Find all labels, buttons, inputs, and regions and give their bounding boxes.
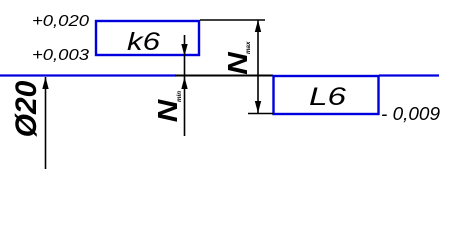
svg-text:L6: L6 [309, 83, 346, 111]
svg-text:N: N [223, 51, 254, 74]
svg-text:Ø20: Ø20 [10, 80, 43, 137]
svg-text:+0,020: +0,020 [32, 13, 89, 30]
svg-text:+0,003: +0,003 [32, 47, 89, 64]
svg-text:k6: k6 [127, 28, 160, 56]
svg-text:- 0,009: - 0,009 [381, 104, 440, 124]
svg-text:max: max [245, 41, 252, 54]
svg-text:min: min [176, 91, 183, 102]
